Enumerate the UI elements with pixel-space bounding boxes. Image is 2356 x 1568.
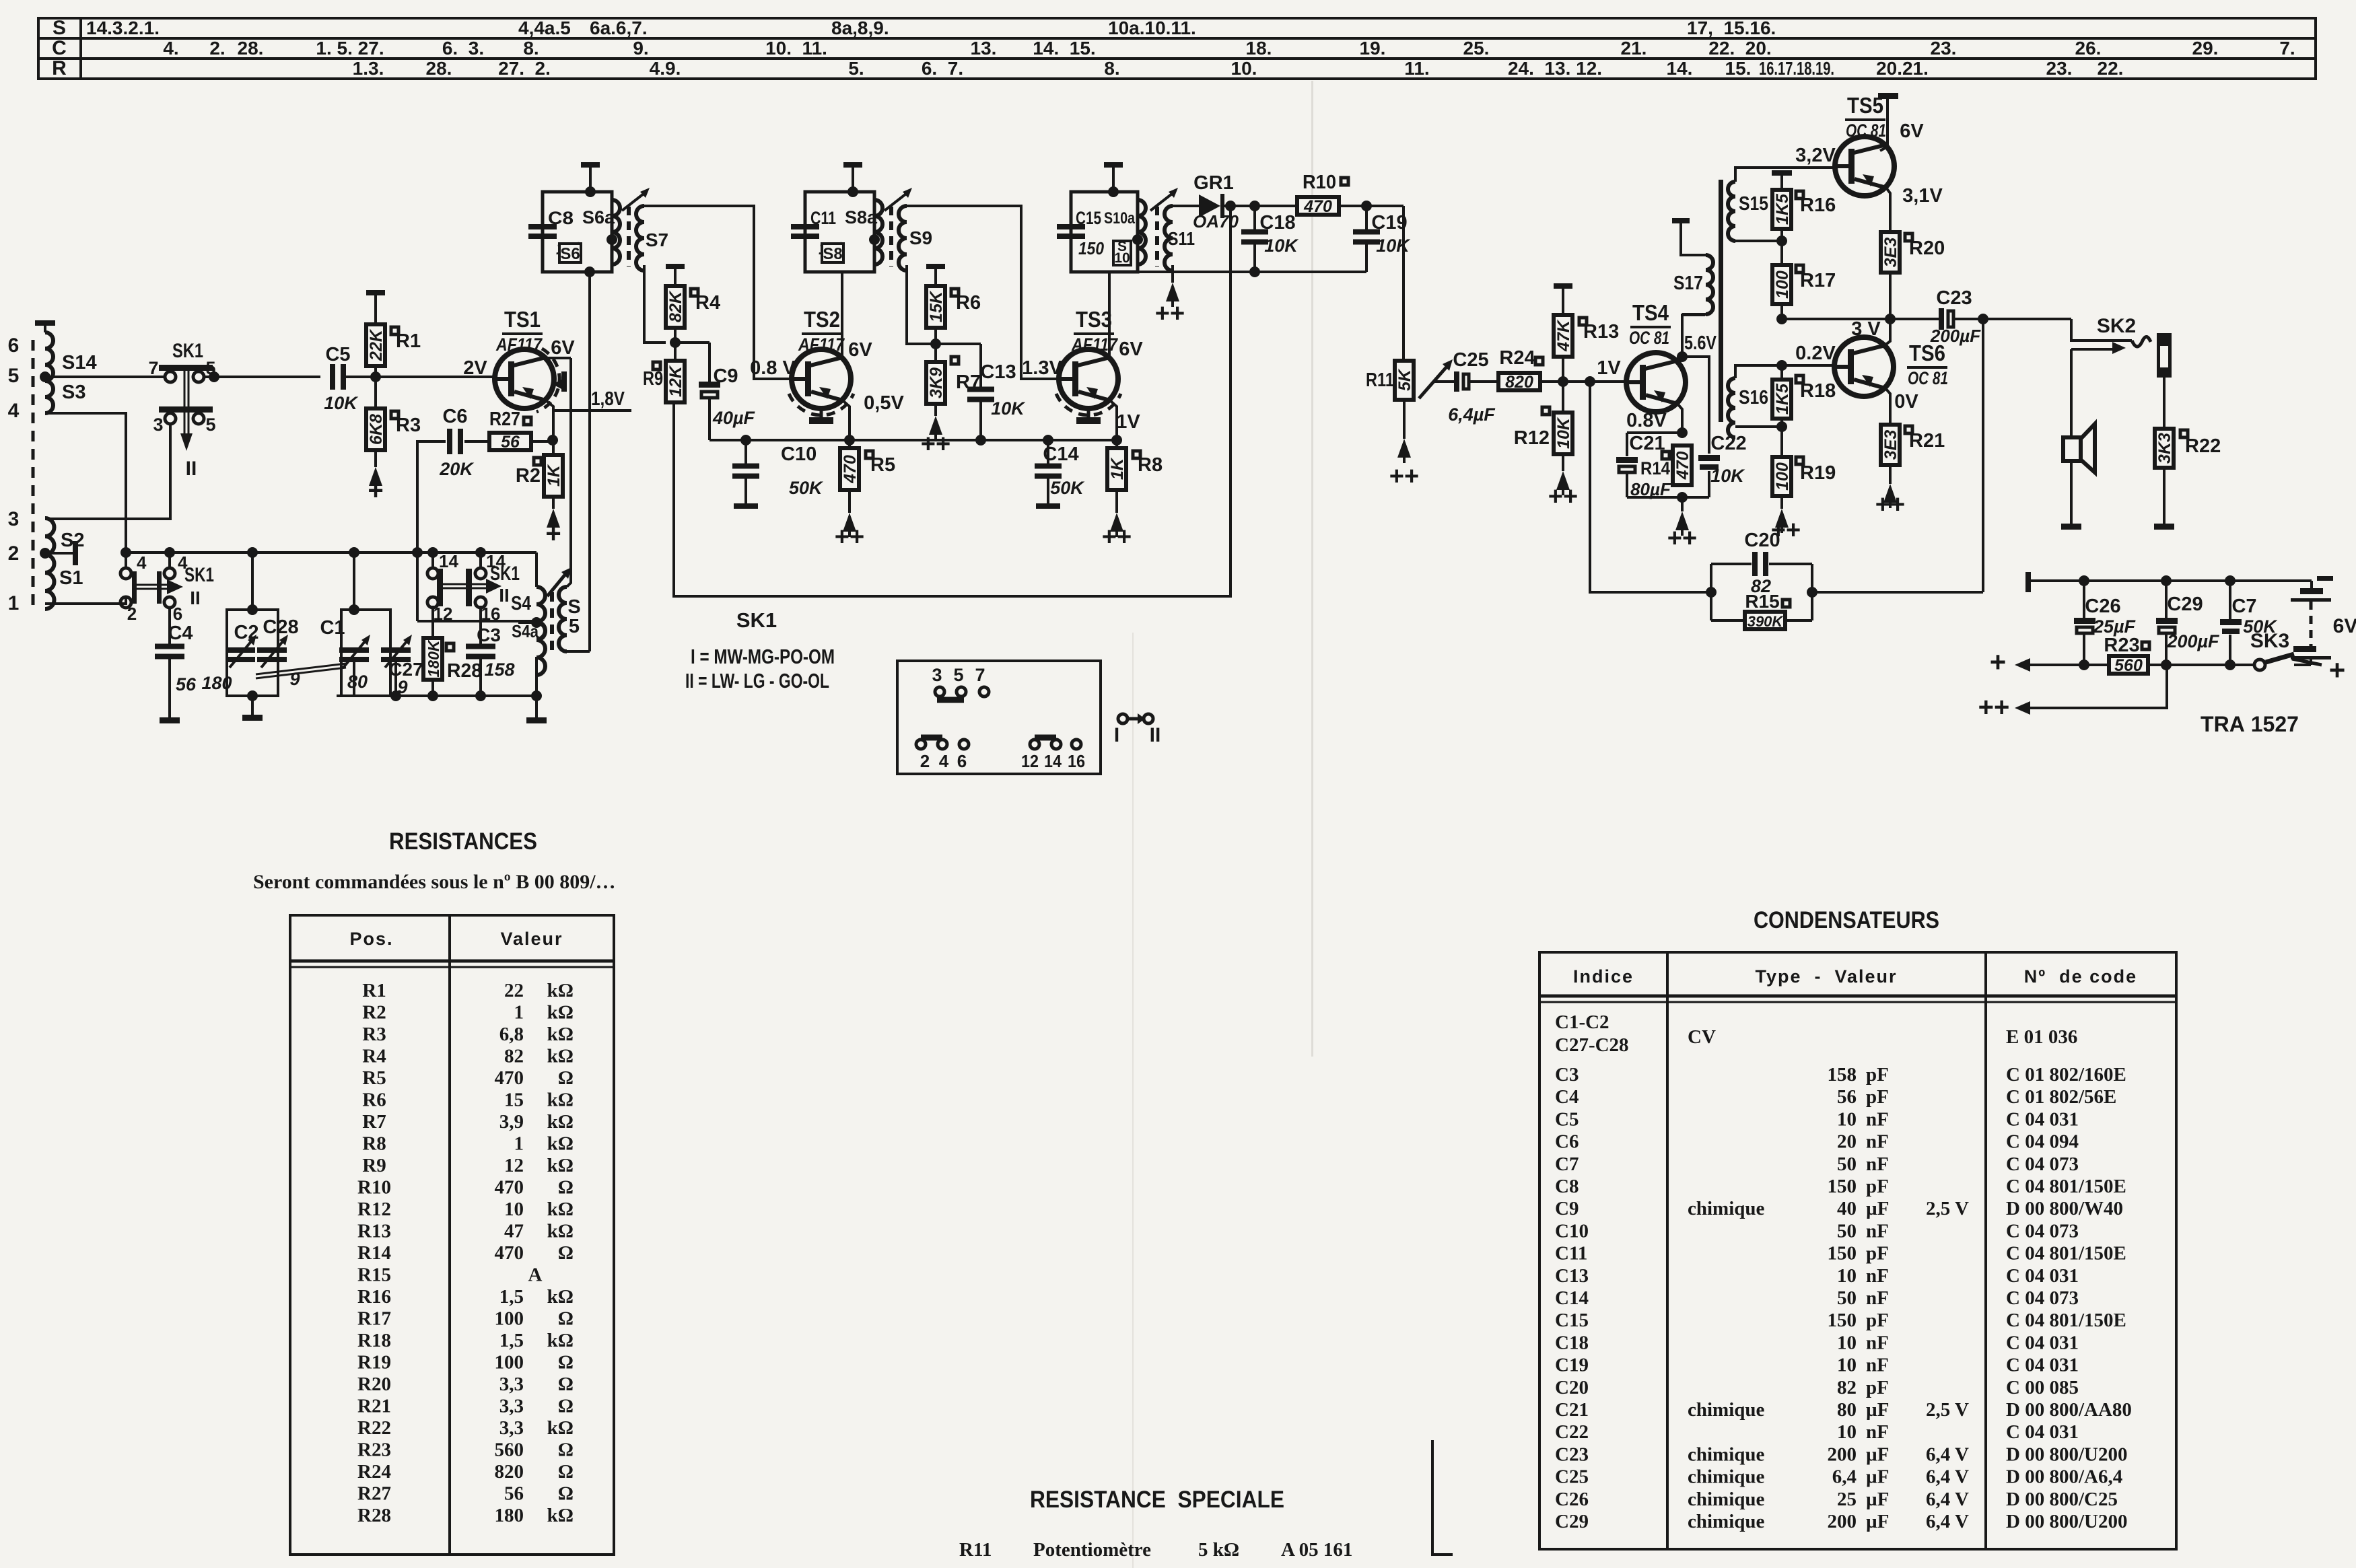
svg-text:560: 560 bbox=[495, 1439, 524, 1461]
capacitor C26 25uF bbox=[2083, 581, 2085, 618]
svg-text:100: 100 bbox=[1773, 271, 1792, 299]
svg-text:C 04 031: C 04 031 bbox=[2006, 1108, 2079, 1130]
wire S11 bottom to supply arrow bbox=[1171, 265, 1174, 283]
svg-text:S1: S1 bbox=[59, 567, 83, 589]
svg-text:pF: pF bbox=[1866, 1064, 1889, 1085]
svg-text:4.9.: 4.9. bbox=[650, 58, 681, 79]
svg-text:nF: nF bbox=[1866, 1332, 1889, 1353]
svg-text:C18: C18 bbox=[1555, 1332, 1589, 1353]
svg-text:S15: S15 bbox=[1739, 193, 1768, 215]
wire C6 to oscillator tap bbox=[417, 441, 446, 621]
svg-text:kΩ: kΩ bbox=[547, 1024, 574, 1045]
oscillator rail wire bbox=[126, 551, 536, 554]
svg-text:2.: 2. bbox=[209, 38, 225, 59]
svg-text:C8: C8 bbox=[1555, 1176, 1579, 1197]
svg-text:1. 5. 27.: 1. 5. 27. bbox=[316, 38, 384, 59]
resistor R12 10K bbox=[1562, 382, 1564, 413]
svg-text:50: 50 bbox=[1837, 1153, 1857, 1175]
transformer core (dashed) bbox=[889, 207, 893, 266]
svg-text:R7: R7 bbox=[362, 1111, 386, 1133]
svg-text:D 00 800/U200: D 00 800/U200 bbox=[2006, 1511, 2127, 1532]
feedback wire TS4 base to C20/R15 bbox=[1590, 382, 1711, 592]
svg-text:150: 150 bbox=[1828, 1176, 1857, 1197]
corner mark bbox=[1432, 1440, 1453, 1555]
svg-text:24. 13. 12.: 24. 13. 12. bbox=[1508, 58, 1602, 79]
tuning arrow bbox=[1150, 194, 1172, 211]
svg-text:4: 4 bbox=[137, 553, 147, 573]
svg-text:R27: R27 bbox=[489, 408, 520, 430]
svg-text:6V: 6V bbox=[2333, 615, 2356, 637]
svg-text:C 04 094: C 04 094 bbox=[2006, 1131, 2079, 1153]
svg-text:R2: R2 bbox=[516, 465, 541, 487]
ground below speaker bbox=[2061, 524, 2081, 530]
trimmer C28 bbox=[257, 647, 287, 653]
svg-text:D 00 800/U200: D 00 800/U200 bbox=[2006, 1444, 2127, 1465]
svg-text:80: 80 bbox=[347, 672, 368, 692]
svg-text:10: 10 bbox=[1837, 1332, 1857, 1353]
svg-text:S10a: S10a bbox=[1104, 209, 1136, 227]
emitter network C21 R14 C22 bbox=[1627, 431, 1682, 434]
svg-text:R18: R18 bbox=[1800, 380, 1836, 402]
supply arrow ++ below R7 bbox=[929, 416, 942, 435]
svg-text:26.: 26. bbox=[2075, 38, 2102, 59]
svg-text:S2: S2 bbox=[61, 530, 84, 551]
svg-text:R16: R16 bbox=[1800, 194, 1836, 216]
svg-text:A: A bbox=[528, 1264, 543, 1286]
resistor R7 3K9 bbox=[951, 357, 959, 364]
svg-text:RESISTANCES: RESISTANCES bbox=[389, 828, 537, 855]
svg-text:18.: 18. bbox=[1246, 38, 1272, 59]
svg-text:29.: 29. bbox=[2192, 38, 2219, 59]
wire TS2 collector to transformer S8 bbox=[841, 272, 843, 358]
svg-text:R12: R12 bbox=[357, 1199, 391, 1220]
svg-text:C 01 802/56E: C 01 802/56E bbox=[2006, 1086, 2116, 1108]
svg-text:S4a: S4a bbox=[512, 621, 539, 641]
winding S6 label box bbox=[559, 244, 581, 262]
svg-text:16.17.18.19.: 16.17.18.19. bbox=[1759, 58, 1834, 79]
svg-text:470: 470 bbox=[495, 1067, 524, 1089]
svg-text:10: 10 bbox=[1837, 1355, 1857, 1376]
svg-text:kΩ: kΩ bbox=[547, 1417, 574, 1439]
resistor R9 12K bbox=[653, 362, 660, 369]
svg-text:R20: R20 bbox=[357, 1374, 391, 1395]
ferrite rod (dashed) bbox=[32, 340, 35, 609]
svg-text:47: 47 bbox=[504, 1221, 524, 1242]
svg-text:R8: R8 bbox=[1138, 454, 1163, 476]
svg-text:D 00 800/A6,4: D 00 800/A6,4 bbox=[2006, 1466, 2122, 1488]
svg-text:R23: R23 bbox=[357, 1439, 391, 1461]
svg-text:80: 80 bbox=[1837, 1399, 1857, 1421]
svg-text:7.: 7. bbox=[2279, 38, 2295, 59]
supply arrow + below R2 bbox=[547, 509, 560, 528]
svg-text:200µF: 200µF bbox=[2166, 631, 2220, 651]
coil S2-S1 bbox=[45, 518, 55, 609]
svg-text:R24: R24 bbox=[357, 1461, 391, 1483]
svg-text:3,2V: 3,2V bbox=[1795, 145, 1836, 166]
svg-text:C4: C4 bbox=[168, 622, 193, 644]
resistor R1 22K bbox=[366, 290, 385, 295]
svg-text:82: 82 bbox=[504, 1046, 524, 1067]
svg-text:1K: 1K bbox=[1108, 457, 1127, 480]
svg-text:C 04 031: C 04 031 bbox=[2006, 1332, 2079, 1353]
svg-text:R8: R8 bbox=[362, 1133, 386, 1155]
svg-text:C5: C5 bbox=[325, 344, 350, 365]
svg-text:4,4a.5: 4,4a.5 bbox=[518, 17, 571, 38]
wire S11 top to diode bbox=[1173, 205, 1199, 207]
svg-text:SK1: SK1 bbox=[172, 340, 203, 362]
svg-text:1: 1 bbox=[514, 1133, 524, 1155]
svg-text:R21: R21 bbox=[1909, 430, 1945, 452]
svg-text:8.: 8. bbox=[1104, 58, 1119, 79]
svg-text:10K: 10K bbox=[1554, 417, 1573, 449]
svg-text:C11: C11 bbox=[1555, 1243, 1587, 1264]
svg-text:+: + bbox=[545, 519, 561, 548]
resistor R14 470 bbox=[1662, 452, 1669, 459]
svg-text:S4: S4 bbox=[511, 593, 531, 614]
svg-text:++: ++ bbox=[921, 430, 950, 458]
loop left branch bbox=[1710, 564, 1712, 620]
svg-text:C1-C2: C1-C2 bbox=[1555, 1011, 1609, 1033]
svg-text:R14: R14 bbox=[357, 1242, 391, 1264]
svg-text:Ω: Ω bbox=[558, 1308, 574, 1330]
svg-text:C 04 031: C 04 031 bbox=[2006, 1265, 2079, 1287]
svg-text:S3: S3 bbox=[62, 382, 85, 403]
svg-text:chimique: chimique bbox=[1688, 1399, 1765, 1421]
capacitor C11 150 bbox=[791, 224, 819, 229]
svg-text:21.: 21. bbox=[1621, 38, 1647, 59]
svg-text:14.3.2.1.: 14.3.2.1. bbox=[86, 17, 160, 38]
svg-text:+: + bbox=[1990, 646, 2007, 678]
svg-text:20.21.: 20.21. bbox=[1876, 58, 1929, 79]
svg-text:Ω: Ω bbox=[558, 1177, 574, 1199]
svg-text:C13: C13 bbox=[1555, 1265, 1589, 1287]
wire TS3 emitter to R8 bbox=[1111, 401, 1117, 448]
6V line down to oscillator (S5 top) bbox=[567, 358, 571, 587]
svg-text:C13: C13 bbox=[980, 361, 1016, 383]
wire SK1 pin3 to S2 bbox=[45, 424, 170, 519]
svg-text:R17: R17 bbox=[1800, 270, 1836, 291]
svg-text:27. 2.: 27. 2. bbox=[498, 58, 551, 79]
coil S10a (primary) bbox=[1138, 200, 1146, 264]
svg-text:0.8V: 0.8V bbox=[1626, 410, 1667, 431]
svg-text:pF: pF bbox=[1866, 1310, 1889, 1331]
svg-text:6. 3.: 6. 3. bbox=[442, 38, 484, 59]
coil S14-S3 bbox=[45, 332, 53, 413]
svg-text:C25: C25 bbox=[1555, 1466, 1589, 1488]
svg-text:50: 50 bbox=[1837, 1220, 1857, 1242]
svg-text:nF: nF bbox=[1866, 1265, 1889, 1287]
svg-text:nF: nF bbox=[1866, 1153, 1889, 1175]
svg-text:SK1: SK1 bbox=[736, 608, 777, 632]
svg-text:R14: R14 bbox=[1640, 458, 1670, 478]
wire S3 tap to SK1 pin7 bbox=[40, 371, 50, 382]
svg-text:200: 200 bbox=[1828, 1511, 1857, 1532]
svg-text:C20: C20 bbox=[1744, 530, 1780, 551]
wire R24 to TS4 base bbox=[1540, 380, 1625, 383]
svg-text:56: 56 bbox=[501, 433, 520, 452]
IF transformer S6a/S6/S7 with C8 bbox=[543, 192, 612, 272]
wire S9 bottom to bias node bbox=[907, 265, 981, 344]
svg-text:2,5 V: 2,5 V bbox=[1926, 1399, 1969, 1421]
svg-text:nF: nF bbox=[1866, 1421, 1889, 1443]
svg-text:2: 2 bbox=[8, 542, 20, 565]
svg-text:C2: C2 bbox=[234, 622, 258, 643]
svg-text:28.: 28. bbox=[238, 38, 264, 59]
svg-text:3,9: 3,9 bbox=[499, 1111, 524, 1133]
switch SK1 (oscillator) bbox=[427, 547, 438, 558]
svg-text:µF: µF bbox=[1866, 1489, 1889, 1510]
resistor R15 390K bbox=[1711, 619, 1745, 622]
svg-text:10K: 10K bbox=[324, 393, 359, 413]
svg-text:µF: µF bbox=[1866, 1511, 1889, 1532]
svg-text:R9: R9 bbox=[362, 1155, 386, 1176]
svg-text:10.: 10. bbox=[1231, 58, 1257, 79]
supply arrow ++ below R21 bbox=[1883, 484, 1897, 503]
svg-text:nF: nF bbox=[1866, 1220, 1889, 1242]
svg-text:C25: C25 bbox=[1453, 349, 1488, 371]
svg-text:R24: R24 bbox=[1499, 347, 1535, 369]
svg-text:R6: R6 bbox=[956, 292, 981, 314]
svg-text:5 kΩ: 5 kΩ bbox=[1198, 1539, 1239, 1561]
svg-text:Nº de code: Nº de code bbox=[2024, 966, 2137, 987]
trimmer C27 bbox=[381, 647, 411, 653]
svg-text:R9: R9 bbox=[643, 368, 663, 390]
fold creases bbox=[1311, 81, 1313, 1057]
svg-text:1V: 1V bbox=[1116, 411, 1140, 433]
svg-text:++: ++ bbox=[1978, 692, 2010, 722]
capacitor C19 10K bbox=[1365, 206, 1368, 230]
wire plug to R22 bbox=[2163, 378, 2166, 429]
svg-text:10: 10 bbox=[504, 1199, 524, 1220]
svg-text:47K: 47K bbox=[1554, 319, 1573, 352]
svg-text:470: 470 bbox=[1673, 452, 1692, 480]
svg-text:3: 3 bbox=[8, 508, 20, 530]
svg-text:C6: C6 bbox=[442, 406, 467, 427]
svg-text:12: 12 bbox=[1021, 751, 1039, 771]
resistor R20 3E3 bbox=[1905, 234, 1912, 241]
svg-text:1,8V: 1,8V bbox=[591, 388, 625, 410]
coil S9 (secondary) bbox=[899, 206, 907, 271]
tuning arrow bbox=[885, 194, 906, 211]
svg-text:7: 7 bbox=[148, 358, 158, 378]
svg-text:kΩ: kΩ bbox=[547, 1505, 574, 1526]
svg-text:C28: C28 bbox=[263, 616, 298, 638]
svg-text:3E3: 3E3 bbox=[1881, 238, 1900, 268]
wire TS1 collector to 6V line bbox=[545, 357, 571, 359]
svg-text:5: 5 bbox=[8, 365, 20, 387]
svg-text:6: 6 bbox=[957, 751, 967, 771]
svg-text:40µF: 40µF bbox=[712, 408, 756, 428]
supply arrow ++ below R11 bbox=[1397, 439, 1411, 458]
svg-text:C: C bbox=[52, 37, 67, 59]
coil S8a (primary) bbox=[874, 200, 882, 264]
svg-text:6V: 6V bbox=[848, 339, 872, 361]
resistor R13 47K bbox=[1554, 283, 1572, 289]
svg-text:R: R bbox=[52, 57, 67, 79]
resistor R5 470 bbox=[840, 448, 859, 490]
svg-text:C23: C23 bbox=[1936, 287, 1972, 309]
svg-text:C19: C19 bbox=[1555, 1355, 1589, 1376]
svg-text:R3: R3 bbox=[362, 1024, 386, 1045]
svg-text:Valeur: Valeur bbox=[500, 929, 563, 949]
svg-text:6. 7.: 6. 7. bbox=[922, 58, 963, 79]
svg-text:R10: R10 bbox=[1303, 172, 1336, 193]
wire S5 bottom to S6 return bbox=[567, 650, 590, 653]
svg-text:R13: R13 bbox=[1583, 321, 1619, 343]
svg-text:kΩ: kΩ bbox=[547, 1199, 574, 1220]
svg-text:10: 10 bbox=[1837, 1108, 1857, 1130]
svg-text:R27: R27 bbox=[357, 1483, 391, 1505]
svg-text:S6: S6 bbox=[560, 245, 580, 263]
emitter rail 1,8V bbox=[547, 401, 553, 455]
svg-text:C18: C18 bbox=[1259, 212, 1295, 234]
svg-text:180K: 180K bbox=[425, 639, 442, 677]
svg-text:9.: 9. bbox=[633, 38, 648, 59]
svg-text:Type - Valeur: Type - Valeur bbox=[1755, 966, 1897, 987]
svg-text:20: 20 bbox=[1837, 1131, 1857, 1153]
svg-text:1K5: 1K5 bbox=[1773, 193, 1792, 225]
svg-text:C6: C6 bbox=[1555, 1131, 1579, 1153]
svg-text:3K3: 3K3 bbox=[2155, 433, 2174, 464]
svg-text:pF: pF bbox=[1866, 1243, 1889, 1264]
svg-text:15: 15 bbox=[504, 1090, 524, 1111]
svg-text:820: 820 bbox=[1505, 373, 1533, 392]
svg-text:C5: C5 bbox=[1555, 1108, 1579, 1130]
svg-text:R10: R10 bbox=[357, 1177, 391, 1199]
svg-text:µF: µF bbox=[1866, 1466, 1889, 1488]
svg-text:390K: 390K bbox=[1747, 613, 1785, 630]
wire S16 top to TS6 base bbox=[1735, 365, 1833, 378]
svg-text:kΩ: kΩ bbox=[547, 1046, 574, 1067]
svg-text:200µF: 200µF bbox=[1930, 326, 1981, 346]
contacts 12 14 16 bbox=[1035, 735, 1056, 741]
svg-text:C29: C29 bbox=[2167, 594, 2203, 615]
svg-text:nF: nF bbox=[1866, 1355, 1889, 1376]
svg-text:3,3: 3,3 bbox=[499, 1396, 524, 1417]
svg-text:TS4: TS4 bbox=[1632, 300, 1669, 325]
supply terminal (minus rail) bbox=[2025, 572, 2031, 592]
battery 6V bbox=[2317, 576, 2333, 581]
svg-text:SK3: SK3 bbox=[2250, 630, 2289, 652]
winding S10 label box bbox=[1113, 241, 1131, 265]
svg-text:6: 6 bbox=[8, 334, 20, 357]
svg-text:chimique: chimique bbox=[1688, 1489, 1765, 1510]
transformer core (dashed) bbox=[627, 207, 631, 266]
svg-text:S16: S16 bbox=[1739, 387, 1768, 408]
resistor R22 3K3 bbox=[2180, 430, 2188, 437]
svg-text:C 04 031: C 04 031 bbox=[2006, 1421, 2079, 1443]
svg-text:82: 82 bbox=[1837, 1377, 1857, 1398]
svg-text:A 05 161: A 05 161 bbox=[1281, 1539, 1352, 1561]
coil S6a (primary) bbox=[612, 200, 620, 264]
svg-text:Ω: Ω bbox=[558, 1461, 574, 1483]
svg-text:kΩ: kΩ bbox=[547, 1330, 574, 1351]
svg-text:100: 100 bbox=[495, 1308, 524, 1330]
wire TS4 collector to S17 bbox=[1677, 351, 1688, 362]
svg-text:C11: C11 bbox=[810, 208, 836, 228]
svg-text:180: 180 bbox=[201, 673, 232, 693]
svg-text:R3: R3 bbox=[396, 415, 421, 436]
detector bottom wire bbox=[1138, 271, 1366, 273]
svg-text:C 04 801/150E: C 04 801/150E bbox=[2006, 1310, 2126, 1331]
svg-text:470: 470 bbox=[495, 1177, 524, 1199]
svg-text:D 00 800/W40: D 00 800/W40 bbox=[2006, 1198, 2123, 1219]
svg-text:22.: 22. bbox=[2098, 58, 2124, 79]
svg-text:C 04 073: C 04 073 bbox=[2006, 1153, 2079, 1175]
AGC feedback wire to R9 bbox=[674, 206, 1231, 596]
svg-text:15K: 15K bbox=[927, 290, 946, 322]
junction S4-S4a bbox=[531, 617, 542, 628]
svg-text:Potentiomètre: Potentiomètre bbox=[1033, 1539, 1151, 1561]
svg-text:470: 470 bbox=[495, 1242, 524, 1264]
svg-text:TS3: TS3 bbox=[1076, 307, 1112, 332]
resistor R28 180K bbox=[431, 607, 434, 638]
svg-text:100: 100 bbox=[1773, 462, 1792, 491]
svg-text:C14: C14 bbox=[1555, 1287, 1589, 1309]
capacitor C22 10K bbox=[1698, 455, 1720, 461]
svg-text:C26: C26 bbox=[2085, 596, 2120, 617]
svg-text:3K9: 3K9 bbox=[927, 367, 946, 398]
svg-text:40: 40 bbox=[1837, 1198, 1857, 1219]
wire TS6 collector to rail bbox=[1885, 319, 1890, 345]
condensateurs table bbox=[1539, 952, 2176, 1549]
svg-text:chimique: chimique bbox=[1688, 1198, 1765, 1219]
svg-text:C15: C15 bbox=[1555, 1310, 1589, 1331]
svg-text:R20: R20 bbox=[1909, 238, 1945, 259]
variable capacitor C2 bbox=[226, 647, 255, 653]
gang box C1 bbox=[341, 610, 390, 696]
wire to speaker bbox=[2070, 349, 2073, 436]
svg-text:4: 4 bbox=[939, 751, 949, 771]
wire S15 bottom to R16 bbox=[1735, 240, 1782, 242]
svg-text:chimique: chimique bbox=[1688, 1444, 1765, 1465]
resistor R2 1K bbox=[534, 458, 541, 465]
svg-text:1: 1 bbox=[8, 592, 20, 614]
diode GR1 OA70 bbox=[1199, 194, 1220, 217]
svg-text:R18: R18 bbox=[357, 1330, 391, 1351]
svg-text:C 04 031: C 04 031 bbox=[2006, 1355, 2079, 1376]
svg-text:C27-C28: C27-C28 bbox=[1555, 1034, 1629, 1056]
svg-text:19.: 19. bbox=[1360, 38, 1386, 59]
svg-text:pF: pF bbox=[1866, 1176, 1889, 1197]
svg-text:C10: C10 bbox=[1555, 1220, 1589, 1242]
ganging line C2-C1 bbox=[256, 664, 346, 674]
wire detector to volume pot bbox=[1402, 206, 1405, 361]
svg-text:6: 6 bbox=[173, 604, 182, 624]
svg-text:C 04 801/150E: C 04 801/150E bbox=[2006, 1243, 2126, 1264]
svg-text:II: II bbox=[186, 458, 197, 480]
svg-text:+: + bbox=[368, 476, 383, 505]
svg-text:3,3: 3,3 bbox=[499, 1417, 524, 1439]
gang box C2 C28 bbox=[227, 610, 278, 696]
svg-text:R11: R11 bbox=[959, 1539, 992, 1561]
switch contact detail box bbox=[897, 661, 1101, 774]
svg-text:1,5: 1,5 bbox=[499, 1286, 524, 1308]
svg-text:C15: C15 bbox=[1076, 208, 1101, 228]
svg-text:II: II bbox=[190, 587, 201, 608]
svg-text:R21: R21 bbox=[357, 1396, 391, 1417]
svg-text:1.3V: 1.3V bbox=[1022, 357, 1062, 379]
svg-text:R22: R22 bbox=[2185, 435, 2221, 457]
svg-text:17, 15.16.: 17, 15.16. bbox=[1687, 17, 1776, 38]
supply terminal above transformer bbox=[581, 162, 600, 168]
svg-text:4: 4 bbox=[8, 400, 20, 422]
ground below R22 bbox=[2154, 524, 2174, 530]
svg-text:RESISTANCE SPECIALE: RESISTANCE SPECIALE bbox=[1030, 1487, 1284, 1513]
svg-text:C9: C9 bbox=[1555, 1198, 1579, 1219]
position selector I-II symbol bbox=[1118, 714, 1128, 723]
svg-text:6,4 V: 6,4 V bbox=[1926, 1444, 1969, 1465]
